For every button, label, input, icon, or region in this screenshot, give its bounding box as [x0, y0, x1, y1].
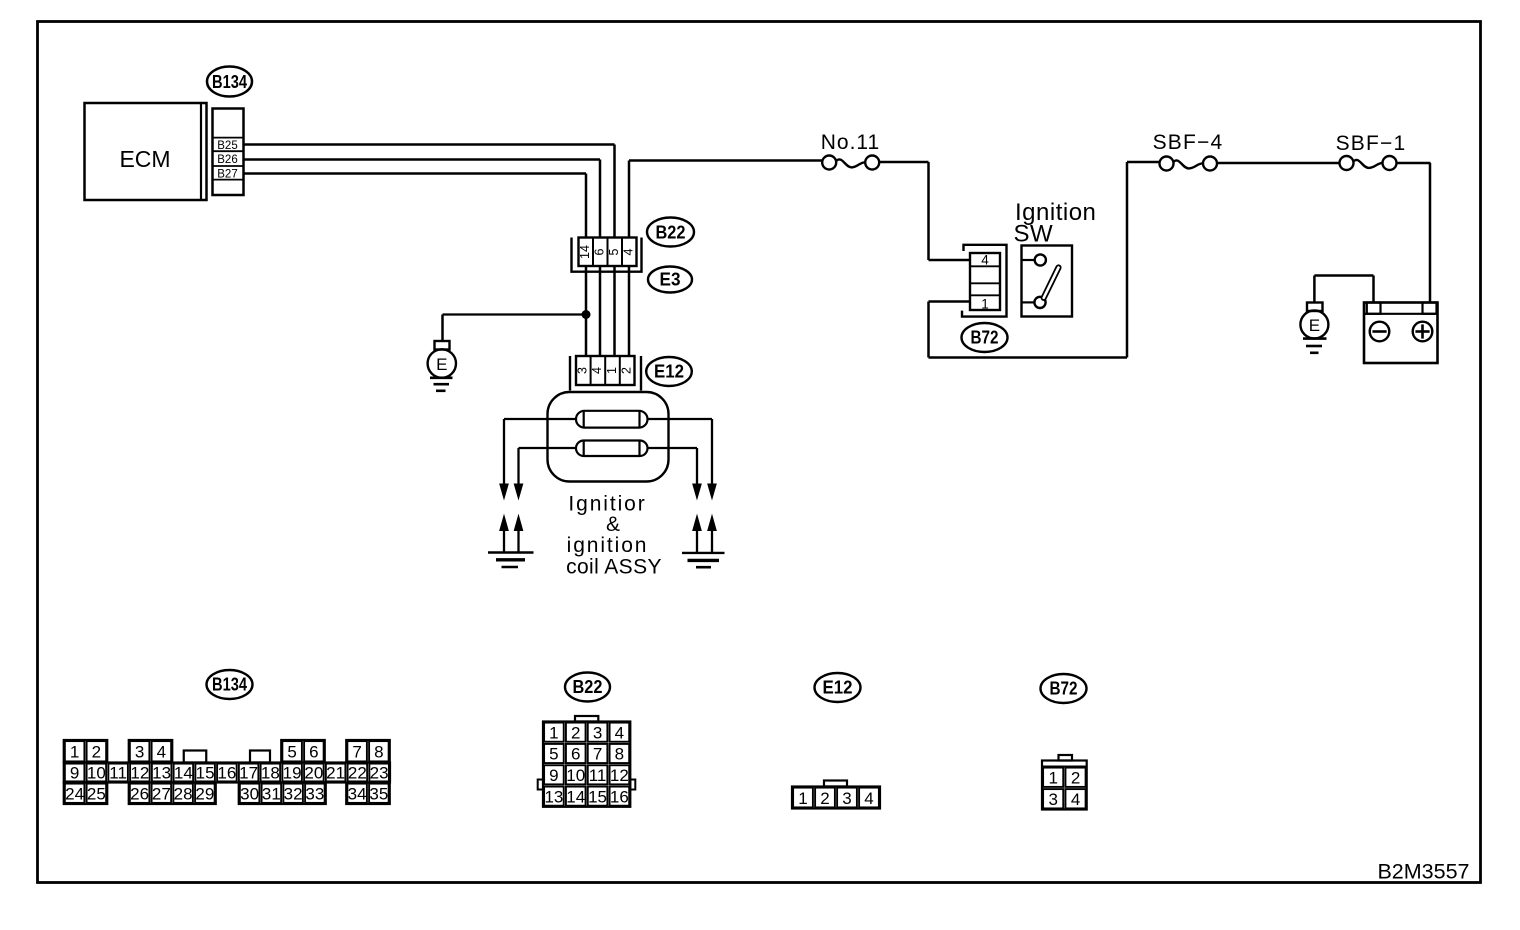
- svg-text:B22: B22: [573, 677, 603, 697]
- svg-text:B27: B27: [217, 169, 237, 181]
- svg-text:2: 2: [92, 743, 101, 762]
- svg-text:5: 5: [607, 248, 621, 255]
- svg-text:13: 13: [152, 764, 171, 783]
- svg-text:3: 3: [842, 789, 851, 808]
- svg-text:No.11: No.11: [821, 131, 880, 154]
- svg-text:B134: B134: [212, 72, 247, 92]
- svg-text:2: 2: [619, 367, 633, 374]
- svg-text:3: 3: [1048, 790, 1057, 809]
- svg-text:4: 4: [621, 248, 635, 255]
- svg-text:E: E: [1309, 316, 1320, 335]
- svg-text:4: 4: [157, 743, 166, 762]
- svg-text:23: 23: [370, 764, 389, 783]
- svg-text:1: 1: [549, 723, 558, 742]
- svg-text:B72: B72: [1050, 679, 1078, 699]
- svg-text:6: 6: [571, 745, 580, 764]
- svg-text:4: 4: [864, 789, 873, 808]
- svg-text:1: 1: [605, 367, 619, 374]
- svg-text:1: 1: [981, 296, 989, 311]
- svg-text:SBF−4: SBF−4: [1153, 131, 1224, 154]
- svg-text:9: 9: [549, 766, 558, 785]
- svg-text:8: 8: [615, 745, 624, 764]
- svg-text:3: 3: [593, 723, 602, 742]
- svg-text:B22: B22: [656, 223, 686, 243]
- svg-text:19: 19: [283, 764, 302, 783]
- svg-text:7: 7: [593, 745, 602, 764]
- svg-text:24: 24: [65, 785, 84, 804]
- svg-text:5: 5: [287, 743, 296, 762]
- svg-text:14: 14: [174, 764, 193, 783]
- svg-text:E: E: [436, 355, 447, 374]
- svg-text:14: 14: [566, 787, 585, 806]
- svg-text:5: 5: [549, 745, 558, 764]
- svg-text:7: 7: [352, 743, 361, 762]
- svg-text:3: 3: [576, 367, 590, 374]
- svg-text:29: 29: [195, 785, 214, 804]
- svg-text:ECM: ECM: [119, 146, 170, 172]
- svg-text:B72: B72: [971, 328, 999, 348]
- svg-text:SBF−1: SBF−1: [1336, 132, 1407, 155]
- svg-text:SW: SW: [1014, 221, 1054, 248]
- svg-text:B134: B134: [212, 675, 247, 695]
- svg-text:11: 11: [589, 766, 607, 785]
- svg-text:E12: E12: [823, 678, 853, 698]
- svg-text:2: 2: [820, 789, 829, 808]
- svg-text:28: 28: [174, 785, 193, 804]
- svg-text:10: 10: [566, 766, 585, 785]
- svg-text:33: 33: [305, 785, 324, 804]
- svg-text:13: 13: [544, 787, 563, 806]
- svg-text:20: 20: [304, 764, 323, 783]
- svg-text:18: 18: [261, 764, 280, 783]
- svg-text:2: 2: [571, 723, 580, 742]
- svg-text:9: 9: [70, 764, 79, 783]
- svg-text:32: 32: [284, 785, 303, 804]
- svg-text:6: 6: [309, 743, 318, 762]
- svg-text:2: 2: [1071, 769, 1080, 788]
- svg-text:26: 26: [130, 785, 149, 804]
- svg-text:6: 6: [592, 248, 606, 255]
- svg-text:15: 15: [196, 764, 215, 783]
- svg-text:&: &: [606, 513, 620, 536]
- svg-text:4: 4: [1071, 790, 1080, 809]
- svg-text:25: 25: [87, 785, 106, 804]
- svg-text:4: 4: [615, 723, 624, 742]
- svg-text:31: 31: [262, 785, 281, 804]
- svg-text:8: 8: [374, 743, 383, 762]
- svg-text:12: 12: [130, 764, 149, 783]
- svg-text:3: 3: [135, 743, 144, 762]
- svg-text:coil ASSY: coil ASSY: [566, 556, 662, 579]
- svg-text:34: 34: [348, 785, 367, 804]
- svg-text:21: 21: [326, 764, 345, 783]
- svg-text:12: 12: [610, 766, 629, 785]
- svg-text:14: 14: [578, 245, 592, 259]
- svg-text:30: 30: [240, 785, 259, 804]
- svg-text:E3: E3: [660, 270, 681, 290]
- svg-text:B26: B26: [217, 154, 237, 166]
- svg-text:1: 1: [70, 743, 79, 762]
- svg-text:1: 1: [798, 789, 807, 808]
- svg-text:4: 4: [981, 252, 989, 267]
- svg-text:B25: B25: [217, 140, 237, 152]
- svg-text:B2M3557: B2M3557: [1377, 860, 1469, 884]
- svg-text:35: 35: [369, 785, 388, 804]
- svg-text:11: 11: [109, 764, 127, 783]
- svg-text:1: 1: [1048, 769, 1057, 788]
- svg-text:27: 27: [152, 785, 171, 804]
- svg-text:E12: E12: [654, 362, 684, 382]
- svg-text:15: 15: [588, 787, 607, 806]
- svg-text:10: 10: [87, 764, 106, 783]
- svg-text:22: 22: [348, 764, 367, 783]
- svg-text:16: 16: [610, 787, 629, 806]
- svg-text:ignition: ignition: [567, 534, 649, 557]
- svg-text:17: 17: [239, 764, 258, 783]
- svg-text:4: 4: [590, 367, 604, 374]
- svg-text:16: 16: [217, 764, 236, 783]
